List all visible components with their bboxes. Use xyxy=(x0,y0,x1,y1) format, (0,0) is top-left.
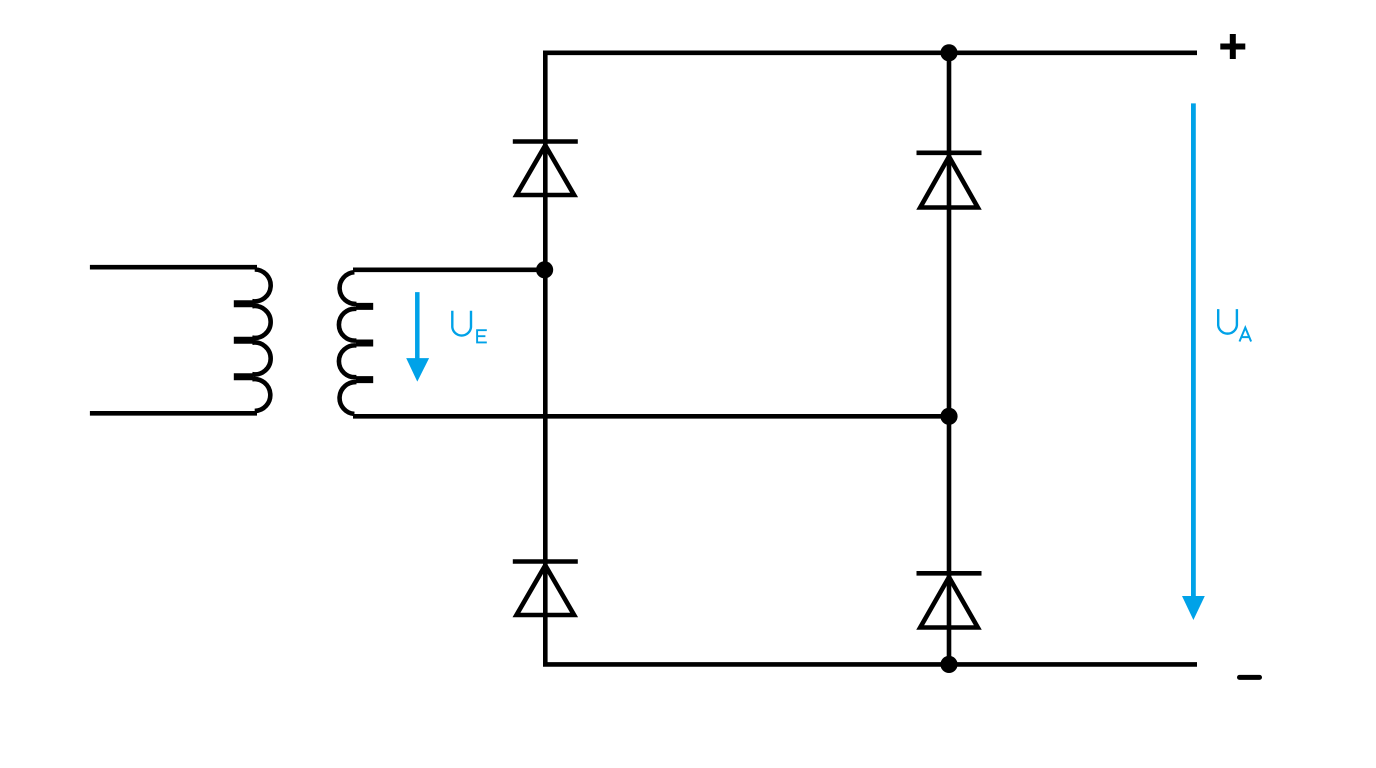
UA voltage arrow xyxy=(1182,103,1205,620)
wire middle (secondary bottom to right branch) xyxy=(353,414,949,419)
wire primary bottom lead xyxy=(90,411,257,416)
transformer primary winding L1 xyxy=(234,269,271,410)
label UA xyxy=(1218,309,1251,341)
wire top rail + left vertical branch + bottom rail xyxy=(545,53,1197,665)
junction dot middle wire / right branch xyxy=(940,408,957,425)
plus terminal label xyxy=(1220,34,1245,59)
wire secondary top to node A xyxy=(353,267,545,272)
diode D1 top-left xyxy=(513,142,578,196)
label UE xyxy=(452,311,487,343)
UE voltage arrow xyxy=(406,292,429,382)
diode D2 top-right xyxy=(917,153,982,208)
junction dot top rail / right branch xyxy=(940,44,957,61)
node A junction dot (secondary top / left branch) xyxy=(536,261,553,278)
wire primary top lead xyxy=(90,265,257,270)
transformer secondary winding L2 xyxy=(339,272,373,414)
diode D3 bottom-left xyxy=(513,562,578,616)
minus terminal label xyxy=(1240,675,1260,680)
wire right vertical branch xyxy=(947,53,952,665)
diode D4 bottom-right xyxy=(917,573,982,627)
junction dot bottom rail / right branch xyxy=(940,656,957,673)
